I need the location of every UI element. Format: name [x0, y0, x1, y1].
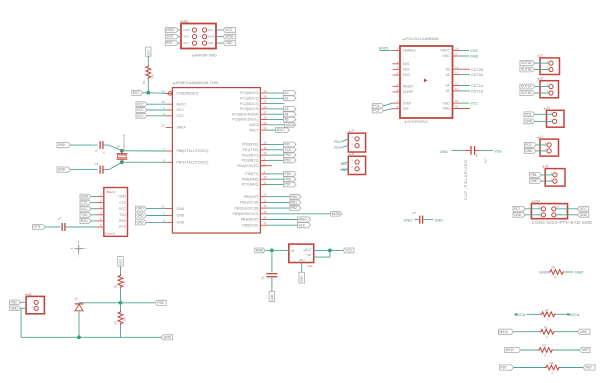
svg-text:AREF: AREF [177, 126, 186, 130]
svg-text:ADC6: ADC6 [249, 123, 258, 127]
svg-text:VCC: VCC [146, 49, 150, 55]
svg-text:PD1(TXD): PD1(TXD) [242, 148, 258, 152]
capacitor C5 polarized [464, 146, 487, 200]
wire [78, 303, 80, 304]
svg-text:ADC6: ADC6 [286, 123, 295, 127]
svg-text:GND: GND [177, 221, 185, 225]
sheet origin cross [71, 241, 88, 258]
svg-text:RST: RST [501, 366, 507, 370]
svg-text:VCC: VCC [119, 207, 127, 211]
svg-text:GND: GND [514, 213, 522, 217]
svg-text:PD3: PD3 [334, 146, 340, 150]
label CON4 02X2-PTH-EAD-SMD [532, 220, 592, 225]
net label GND (C4 left) [404, 219, 413, 223]
net flag GND (ISP right) [216, 41, 236, 46]
svg-text:PC4(ADC4/SDA): PC4(ADC4/SDA) [232, 112, 259, 116]
svg-text:TXD: TXD [119, 213, 126, 217]
label U$4 [531, 200, 540, 204]
net label OUT2B [460, 68, 484, 72]
label J7 [348, 129, 355, 133]
svg-text:15: 15 [455, 105, 459, 109]
svg-text:10k: 10k [151, 74, 155, 79]
junction [120, 160, 124, 164]
svg-text:TXO: TXO [285, 148, 292, 152]
svg-text:MS1: MS1 [403, 62, 410, 66]
MCU right pins [232, 89, 268, 227]
svg-text:VCC: VCC [137, 114, 144, 118]
svg-text:STEPDRV1: STEPDRV1 [407, 119, 429, 124]
svg-text:17: 17 [264, 221, 268, 225]
wire XTAL2 [122, 161, 166, 163]
wire [121, 302, 155, 304]
svg-text:A4: A4 [285, 112, 289, 116]
svg-text:DTR: DTR [34, 225, 41, 229]
svg-text:MS7: MS7 [582, 348, 589, 352]
wire [272, 249, 289, 251]
svg-text:PC2(ADC2): PC2(ADC2) [240, 102, 258, 106]
svg-text:TXD: TXD [81, 213, 88, 217]
svg-text:GND: GND [11, 306, 19, 310]
svg-text:R2: R2 [114, 284, 118, 288]
svg-text:PD6(AIN0): PD6(AIN0) [242, 177, 259, 181]
svg-text:MISO: MISO [299, 218, 308, 222]
svg-text:R3: R3 [114, 320, 118, 324]
net flag PD6 [268, 177, 297, 182]
wire [147, 56, 149, 65]
svg-text:VSS: VSS [494, 149, 502, 153]
svg-text:28: 28 [264, 116, 268, 120]
net flag PD2 (J1.1) [524, 143, 547, 148]
svg-text:PD7(AIN1): PD7(AIN1) [242, 183, 259, 187]
net label ADC5 (ENABLE) [379, 47, 393, 51]
wire (PD4 stub) [260, 165, 272, 167]
resistor R5 (MS10-MS5) [499, 325, 590, 339]
svg-text:GND: GND [404, 219, 413, 223]
svg-text:PD3: PD3 [525, 112, 531, 116]
svg-text:PD2: PD2 [285, 153, 291, 157]
net label GND (J8.2) [340, 168, 348, 172]
net label OUT2A [460, 73, 484, 77]
svg-text:10: 10 [264, 175, 268, 179]
svg-text:PC5(ADC5/SCL): PC5(ADC5/SCL) [232, 118, 258, 122]
svg-text:PD6: PD6 [158, 301, 164, 305]
svg-text:MS3: MS3 [403, 73, 410, 77]
net flag GND (vertical, C6) [269, 292, 275, 302]
crystal Q2 [115, 133, 127, 162]
svg-text:OUT2B: OUT2B [471, 68, 484, 72]
net label VCC (stepper VDD) [453, 102, 479, 109]
label STEPDRV1 [404, 119, 429, 124]
svg-text:CTS: CTS [81, 201, 87, 205]
svg-text:(Black): (Black) [106, 190, 115, 194]
resistor R8 (RST-RST) [500, 361, 596, 375]
svg-text:GND: GND [435, 219, 444, 223]
svg-text:U$1: U$1 [183, 19, 189, 23]
svg-text:PD2(INT0): PD2(INT0) [242, 153, 259, 157]
svg-text:MS5: MS5 [580, 330, 587, 334]
svg-text:R8: R8 [550, 361, 554, 365]
svg-text:14: 14 [455, 65, 459, 69]
svg-text:OUT: OUT [305, 248, 312, 252]
net flag PB1 (J5.1) [530, 173, 553, 178]
wire [147, 79, 149, 93]
capacitor C6 [260, 274, 278, 281]
svg-text:ATMEGA48/88/168-THIN: ATMEGA48/88/168-THIN [176, 81, 219, 85]
net label VSS (VMOT) [460, 49, 478, 53]
svg-text:J6: J6 [28, 292, 32, 296]
svg-text:24: 24 [264, 94, 268, 98]
svg-text:PB5(SCK): PB5(SCK) [242, 223, 258, 227]
net label OUT1B [460, 90, 484, 94]
svg-text:GND: GND [137, 214, 145, 218]
svg-text:21: 21 [161, 205, 165, 209]
svg-text:PC5: PC5 [373, 109, 379, 113]
svg-text:ADC6: ADC6 [569, 312, 580, 317]
label C4 [411, 210, 416, 215]
svg-text:GND: GND [208, 41, 214, 45]
wire [21, 308, 79, 337]
svg-text:C2: C2 [95, 162, 99, 166]
svg-text:PB1: PB1 [291, 201, 297, 205]
svg-text:MS10: MS10 [500, 330, 509, 334]
svg-text:R1: R1 [142, 80, 146, 84]
svg-text:PD6: PD6 [285, 177, 291, 181]
svg-text:PB2(SS/OC1B): PB2(SS/OC1B) [234, 206, 258, 210]
net label GND (stepper) [460, 55, 479, 59]
net flag MOSI (ISP right) [216, 34, 236, 39]
svg-text:25: 25 [264, 100, 268, 104]
svg-text:VCC: VCC [119, 259, 123, 265]
svg-text:OUT2A: OUT2A [521, 61, 533, 65]
svg-text:22: 22 [264, 126, 268, 130]
net flag A4 [268, 112, 297, 117]
svg-text:GND: GND [270, 294, 274, 300]
svg-text:CTS: CTS [119, 201, 127, 205]
net flag A1 [268, 96, 297, 101]
svg-text:U$4: U$4 [534, 200, 540, 204]
svg-text:1B: 1B [446, 89, 450, 93]
svg-text:30: 30 [264, 141, 268, 145]
net flag RXD (FTDI) [80, 219, 97, 224]
svg-text:15: 15 [264, 210, 268, 214]
net flag GND (C1) [57, 143, 71, 148]
svg-text:13: 13 [264, 198, 268, 202]
connector J3 [540, 81, 559, 98]
svg-text:PC3(ADC3): PC3(ADC3) [240, 107, 258, 111]
wire [423, 219, 433, 221]
IC U1 ATMEGA48/88/168 body [172, 88, 260, 233]
svg-text:J4: J4 [546, 106, 550, 110]
svg-text:GND: GND [225, 41, 233, 45]
svg-text:PB0: PB0 [291, 195, 297, 199]
svg-text:PC6(/RESET): PC6(/RESET) [177, 92, 199, 96]
net flag TXD (FTDI) [80, 212, 97, 217]
net flag PD6 (top rail) [155, 300, 166, 305]
wire [480, 149, 493, 151]
svg-text:OUT1A: OUT1A [471, 84, 484, 88]
svg-text:GND: GND [300, 276, 304, 282]
net flag SCK (ISP left) [165, 34, 181, 39]
svg-text:GND: GND [164, 335, 172, 339]
svg-text:ADJ: ADJ [299, 258, 305, 262]
net flag PD5 [268, 172, 297, 177]
net flag PB0 [268, 194, 302, 199]
net flag RXI (J6.1) [10, 300, 27, 305]
net flag GND (CON4.3) [513, 212, 541, 217]
svg-text:PB4(MISO): PB4(MISO) [241, 218, 259, 222]
svg-text:VDD: VDD [443, 101, 450, 105]
net flag SCK [268, 223, 311, 228]
label U$1 [180, 19, 189, 23]
svg-text:31: 31 [264, 146, 268, 150]
svg-text:PD0(RXD): PD0(RXD) [242, 143, 259, 147]
label POLOLU-A4988 [403, 37, 439, 41]
svg-text:VCC: VCC [81, 207, 88, 211]
diode D1 [73, 296, 83, 311]
svg-text:PD5: PD5 [285, 172, 291, 176]
svg-text:GND: GND [525, 149, 533, 153]
svg-text:J7: J7 [351, 129, 355, 133]
label J6 [25, 292, 32, 296]
label J5 [542, 164, 549, 168]
wire [120, 303, 122, 311]
svg-text:GND: GND [137, 221, 145, 225]
connector J2 FTDI body [104, 188, 128, 237]
wire [314, 250, 330, 257]
svg-text:GND: GND [525, 120, 533, 124]
svg-text:MS2: MS2 [403, 68, 410, 72]
svg-text:RST: RST [586, 366, 592, 370]
net flag A3 [268, 107, 297, 112]
svg-text:DIR: DIR [403, 107, 409, 111]
svg-text:14: 14 [264, 204, 268, 208]
svg-text:ADC7: ADC7 [276, 128, 285, 132]
net flag GND (bottom rail) [161, 335, 172, 340]
svg-text:GND: GND [137, 207, 145, 211]
net flag A0 [268, 91, 297, 96]
resistor R3 [114, 311, 127, 326]
stepper right pins [453, 47, 461, 109]
svg-text:PD2: PD2 [334, 140, 340, 144]
connector J8 [348, 156, 365, 174]
svg-text:R4: R4 [545, 308, 549, 312]
svg-text:10: 10 [455, 99, 459, 103]
resistor R2 [114, 274, 127, 289]
svg-text:VCC: VCC [177, 114, 185, 118]
svg-text:MOSI: MOSI [225, 35, 233, 39]
svg-text:J8: J8 [351, 152, 355, 156]
net label PD3 (J7.2) [334, 146, 348, 150]
capacitor C1 [94, 141, 105, 154]
svg-text:J3: J3 [540, 77, 544, 81]
svg-text:VCC: VCC [580, 207, 587, 211]
net flag GND (MCU ground) [136, 206, 166, 211]
resistor R1 [142, 65, 155, 84]
capacitor C3 [57, 216, 65, 231]
svg-text:R5: R5 [544, 325, 548, 329]
connector U$4 CON4 [531, 204, 567, 219]
svg-text:AVRISP-SMD: AVRISP-SMD [195, 54, 218, 58]
svg-text:OUT2B: OUT2B [521, 68, 532, 72]
net flag GND (C2) [57, 167, 71, 172]
wire [271, 250, 273, 272]
label J2 [537, 54, 544, 58]
svg-text:PD5(T1): PD5(T1) [245, 172, 258, 176]
net flag PB2 [268, 206, 302, 211]
svg-text:RTS: RTS [119, 225, 126, 229]
wire [65, 226, 97, 228]
svg-text:CAP_POLARIZED: CAP_POLARIZED [464, 159, 468, 200]
junction [77, 335, 81, 339]
net flag VCC (MCU power) [136, 113, 166, 118]
svg-text:PC1(ADC1): PC1(ADC1) [240, 97, 258, 101]
svg-text:J2: J2 [540, 54, 544, 58]
net flag MISO [268, 217, 311, 222]
svg-text:RXI: RXI [285, 143, 290, 147]
svg-text:A5: A5 [285, 118, 289, 122]
svg-text:+: + [303, 249, 305, 253]
wire [148, 92, 168, 95]
junction [146, 91, 150, 95]
svg-text:VCC: VCC [208, 28, 214, 32]
label AVRISP-SMD [192, 54, 218, 58]
svg-text:GND: GND [580, 213, 588, 217]
svg-text:VCC: VCC [225, 28, 232, 32]
wire [120, 289, 122, 303]
svg-text:PB2: PB2 [291, 206, 297, 210]
regulator ADJ pin wire [301, 263, 303, 273]
net flag OUT1A (J3.1) [520, 84, 549, 89]
label J1 [537, 135, 544, 139]
connector J5 [545, 169, 565, 187]
svg-text:GND: GND [440, 150, 449, 154]
svg-text:18: 18 [161, 100, 165, 104]
svg-text:OUT1B: OUT1B [521, 91, 532, 95]
svg-text:MISO: MISO [166, 28, 175, 32]
svg-text:VMOT: VMOT [440, 49, 449, 53]
svg-text:11: 11 [455, 87, 458, 91]
net flag DTR [33, 225, 46, 230]
MCU left pins [161, 89, 208, 224]
svg-text:PC0(ADC0): PC0(ADC0) [240, 91, 258, 95]
net flag TXO [268, 147, 297, 152]
svg-text:STEP: STEP [403, 101, 411, 105]
svg-text:20: 20 [161, 124, 165, 128]
connector J1 [540, 139, 559, 156]
label U$2 [307, 264, 313, 268]
svg-text:PD3(INT1): PD3(INT1) [242, 159, 259, 163]
svg-text:A3: A3 [285, 107, 289, 111]
junction [119, 301, 123, 305]
FTDI pins [97, 193, 104, 228]
svg-text:OUT1A: OUT1A [521, 85, 533, 89]
svg-text:POLOLU-A4983/88: POLOLU-A4983/88 [406, 37, 439, 41]
label ATMEGA48/88/168-THIN [173, 81, 219, 85]
svg-text:PB6(XTAL1/TOSC1): PB6(XTAL1/TOSC1) [177, 149, 209, 153]
svg-text:PD2: PD2 [525, 143, 531, 147]
svg-text:27: 27 [264, 110, 268, 114]
svg-text:PD3: PD3 [285, 159, 291, 163]
wire [45, 226, 61, 228]
resistor R7 (MS12-MS7) [505, 344, 590, 358]
svg-text:PB1: PB1 [531, 173, 537, 177]
svg-text:2B: 2B [446, 67, 450, 71]
capacitor C2 [95, 162, 103, 174]
svg-text:MOSI: MOSI [208, 35, 215, 39]
svg-text:SCK: SCK [166, 35, 173, 39]
svg-text:U$2: U$2 [307, 264, 313, 268]
svg-text:12: 12 [455, 82, 459, 86]
svg-text:GND: GND [177, 214, 185, 218]
svg-text:PB1(OC1A): PB1(OC1A) [240, 201, 258, 205]
svg-text:J5: J5 [545, 164, 549, 168]
svg-text:VCC: VCC [137, 102, 144, 106]
resistor R4 (ADC6) [514, 308, 580, 322]
net flag VCC (ISP right) [216, 28, 236, 33]
net flag OUT2A (J2.1) [520, 61, 549, 66]
net flag MISO (ISP left) [165, 28, 181, 33]
junction [270, 249, 274, 253]
svg-text:GND: GND [470, 55, 479, 59]
svg-text:PB7(XTAL2/TOSC2): PB7(XTAL2/TOSC2) [177, 161, 209, 165]
wire [71, 169, 98, 171]
net flag GND (CON4.4) [556, 212, 589, 217]
svg-text:GND: GND [442, 54, 450, 58]
wire [120, 325, 122, 337]
connector J6 [26, 296, 44, 313]
stepper left pins [393, 47, 401, 109]
svg-text:GND: GND [118, 195, 126, 199]
svg-text:32: 32 [264, 151, 268, 155]
svg-text:PD2: PD2 [11, 300, 17, 304]
svg-text:MS12: MS12 [506, 348, 515, 352]
net flag VCC (vertical, above R1) [146, 47, 151, 56]
svg-text:SCK: SCK [299, 223, 306, 227]
svg-text:RST: RST [184, 41, 190, 45]
svg-text:18: 18 [455, 47, 459, 51]
net flag GND (J4.2) [524, 119, 553, 124]
svg-text:11: 11 [264, 181, 267, 185]
net flag CTS (FTDI) [80, 200, 97, 205]
svg-text:PB3(MOSI/OC2): PB3(MOSI/OC2) [233, 212, 259, 216]
net flag MOSI (long wire) [268, 212, 342, 217]
net flag VCC (MCU power) [136, 102, 166, 107]
svg-text:(Green): (Green) [105, 231, 115, 235]
wire [120, 266, 122, 274]
svg-text:PC4: PC4 [373, 104, 379, 108]
wire [314, 249, 330, 251]
svg-text:RXD: RXD [119, 219, 127, 223]
net flag RAW [255, 248, 272, 253]
junction [120, 149, 124, 153]
svg-text:PD7: PD7 [514, 207, 520, 211]
svg-text:GND: GND [58, 143, 66, 147]
wire XTAL1 [122, 150, 166, 152]
svg-text:R6: R6 [552, 266, 556, 270]
svg-text:GND: GND [575, 270, 584, 275]
net flag PD3 (J4.1) [524, 112, 553, 117]
svg-text:19: 19 [264, 121, 268, 125]
wire (top rail) [79, 302, 121, 304]
svg-text:GND: GND [177, 207, 185, 211]
net flag A5 [268, 117, 297, 122]
net flag ADC6 [268, 122, 297, 127]
svg-text:J1: J1 [540, 135, 544, 139]
junction [328, 249, 332, 253]
IC U$2 regulator body [289, 244, 314, 262]
wire [103, 145, 122, 151]
net flag PC5 (DIR) [372, 108, 392, 113]
